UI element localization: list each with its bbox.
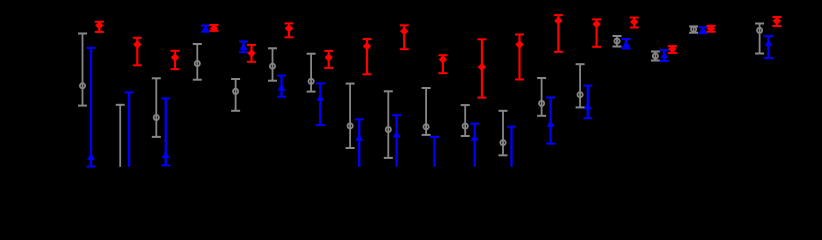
group 2 blue-triangle series error bar [125,92,134,166]
group 2 red-diamond series error bar [133,38,142,66]
group 10 red-diamond series marker (diamond) [439,55,447,63]
group 13 red-diamond series marker (diamond) [554,17,562,25]
group 18 gray-circle series error bar [755,24,764,54]
group 5 red-diamond series error bar [247,45,256,62]
group 3 red-diamond series error bar [171,51,180,69]
group 9 red-diamond series marker (diamond) [400,27,408,35]
group 3 gray-circle series marker (open circle) [154,115,159,120]
group 6 blue-triangle series marker (triangle) [278,84,286,91]
group 5 red-diamond series marker (diamond) [247,49,255,57]
group 7 blue-triangle series marker (triangle) [316,94,324,101]
group 4 blue-triangle series error bar [201,26,210,32]
group 13 gray-circle series error bar [537,78,546,116]
group 18 blue-triangle series error bar [764,36,773,58]
group 17 gray-circle series marker (open circle) [691,27,696,32]
group 4 gray-circle series error bar [193,44,202,80]
group 12 red-diamond series error bar [515,35,524,80]
group 4 gray-circle series marker (open circle) [195,61,200,66]
group 12 gray-circle series error bar [499,111,508,156]
group 7 gray-circle series error bar [307,54,316,92]
group 9 blue-triangle series error bar [392,115,401,167]
group 9 blue-triangle series marker (triangle) [393,131,401,138]
group 18 red-diamond series error bar [772,17,781,26]
group 14 blue-triangle series error bar [583,86,592,119]
group 18 gray-circle series marker (open circle) [757,28,762,33]
group 10 red-diamond series error bar [438,55,447,73]
group 15 blue-triangle series marker (triangle) [622,40,630,47]
group 3 gray-circle series error bar [152,78,161,137]
group 7 red-diamond series error bar [324,51,333,68]
group 2 red-diamond series marker (diamond) [133,40,141,48]
group 11 gray-circle series error bar [461,105,470,136]
group 9 red-diamond series error bar [400,25,409,49]
group 7 red-diamond series marker (diamond) [325,53,333,61]
group 1 red-diamond series error bar [95,22,104,32]
group 14 gray-circle series error bar [576,64,585,107]
group 8 gray-circle series error bar [346,84,355,148]
group 16 gray-circle series error bar [651,52,660,61]
group 17 gray-circle series error bar [689,26,698,32]
group 11 red-diamond series error bar [477,39,486,97]
group 18 red-diamond series marker (diamond) [773,17,781,25]
group 13 blue-triangle series marker (triangle) [547,120,555,127]
group 6 gray-circle series marker (open circle) [270,64,275,69]
group 16 red-diamond series error bar [668,46,677,53]
group 13 red-diamond series error bar [554,15,563,52]
group 13 blue-triangle series error bar [546,97,555,143]
group 16 blue-triangle series error bar [660,50,669,61]
group 4 red-diamond series marker (diamond) [210,24,218,32]
group 8 red-diamond series error bar [363,39,372,74]
group 11 blue-triangle series error bar [470,124,479,167]
group 2 gray-circle series error bar [116,105,125,167]
group 1 gray-circle series error bar [78,34,87,106]
group 12 red-diamond series marker (diamond) [515,40,523,48]
group 11 blue-triangle series marker (triangle) [471,134,479,141]
group 15 gray-circle series marker (open circle) [614,38,619,43]
group 16 blue-triangle series marker (triangle) [660,52,668,59]
group 6 blue-triangle series error bar [277,76,286,97]
group 1 red-diamond series marker (diamond) [95,21,103,29]
group 11 gray-circle series marker (open circle) [463,124,468,129]
group 9 gray-circle series error bar [384,91,393,158]
group 5 blue-triangle series error bar [239,41,248,52]
group 6 gray-circle series error bar [268,48,277,80]
group 14 red-diamond series error bar [592,19,601,46]
group 14 red-diamond series marker (diamond) [592,20,600,28]
group 10 gray-circle series marker (open circle) [424,124,429,129]
group 1 blue-triangle series marker (triangle) [87,153,95,160]
group 15 blue-triangle series error bar [622,39,631,48]
group 4 red-diamond series error bar [210,25,219,31]
group 18 blue-triangle series marker (triangle) [765,39,773,46]
group 17 red-diamond series error bar [707,26,716,32]
group 3 blue-triangle series marker (triangle) [162,151,170,158]
group 11 red-diamond series marker (diamond) [478,63,486,71]
group 6 red-diamond series error bar [285,23,294,37]
group 10 blue-triangle series error bar [430,137,439,167]
group 8 blue-triangle series marker (triangle) [355,134,363,141]
group 1 gray-circle series marker (open circle) [80,83,85,88]
group 15 gray-circle series error bar [613,36,622,47]
group 12 gray-circle series marker (open circle) [500,140,505,145]
group 15 red-diamond series marker (diamond) [630,18,638,26]
group 7 blue-triangle series error bar [316,83,325,125]
group 14 blue-triangle series marker (triangle) [584,102,592,109]
group 5 gray-circle series marker (open circle) [233,89,238,94]
group 8 red-diamond series marker (diamond) [363,42,371,50]
group 5 gray-circle series error bar [231,79,240,111]
group 8 gray-circle series marker (open circle) [348,123,353,128]
group 3 blue-triangle series error bar [161,98,170,165]
group 4 blue-triangle series marker (triangle) [202,25,210,32]
group 5 blue-triangle series marker (triangle) [240,43,248,50]
group 7 gray-circle series marker (open circle) [309,79,314,84]
group 13 gray-circle series marker (open circle) [539,101,544,106]
group 9 gray-circle series marker (open circle) [386,127,391,132]
group 1 blue-triangle series error bar [87,48,96,167]
group 12 blue-triangle series error bar [507,127,516,167]
group 17 blue-triangle series error bar [699,27,708,33]
group 17 blue-triangle series marker (triangle) [699,27,707,34]
group 16 red-diamond series marker (diamond) [668,45,676,53]
group 17 red-diamond series marker (diamond) [707,24,715,32]
group 15 red-diamond series error bar [630,18,639,28]
group 16 gray-circle series marker (open circle) [653,53,658,58]
group 6 red-diamond series marker (diamond) [285,24,293,32]
group 14 gray-circle series marker (open circle) [578,92,583,97]
group 8 blue-triangle series error bar [355,119,364,167]
group 10 gray-circle series error bar [422,88,431,135]
group 3 red-diamond series marker (diamond) [171,53,179,61]
